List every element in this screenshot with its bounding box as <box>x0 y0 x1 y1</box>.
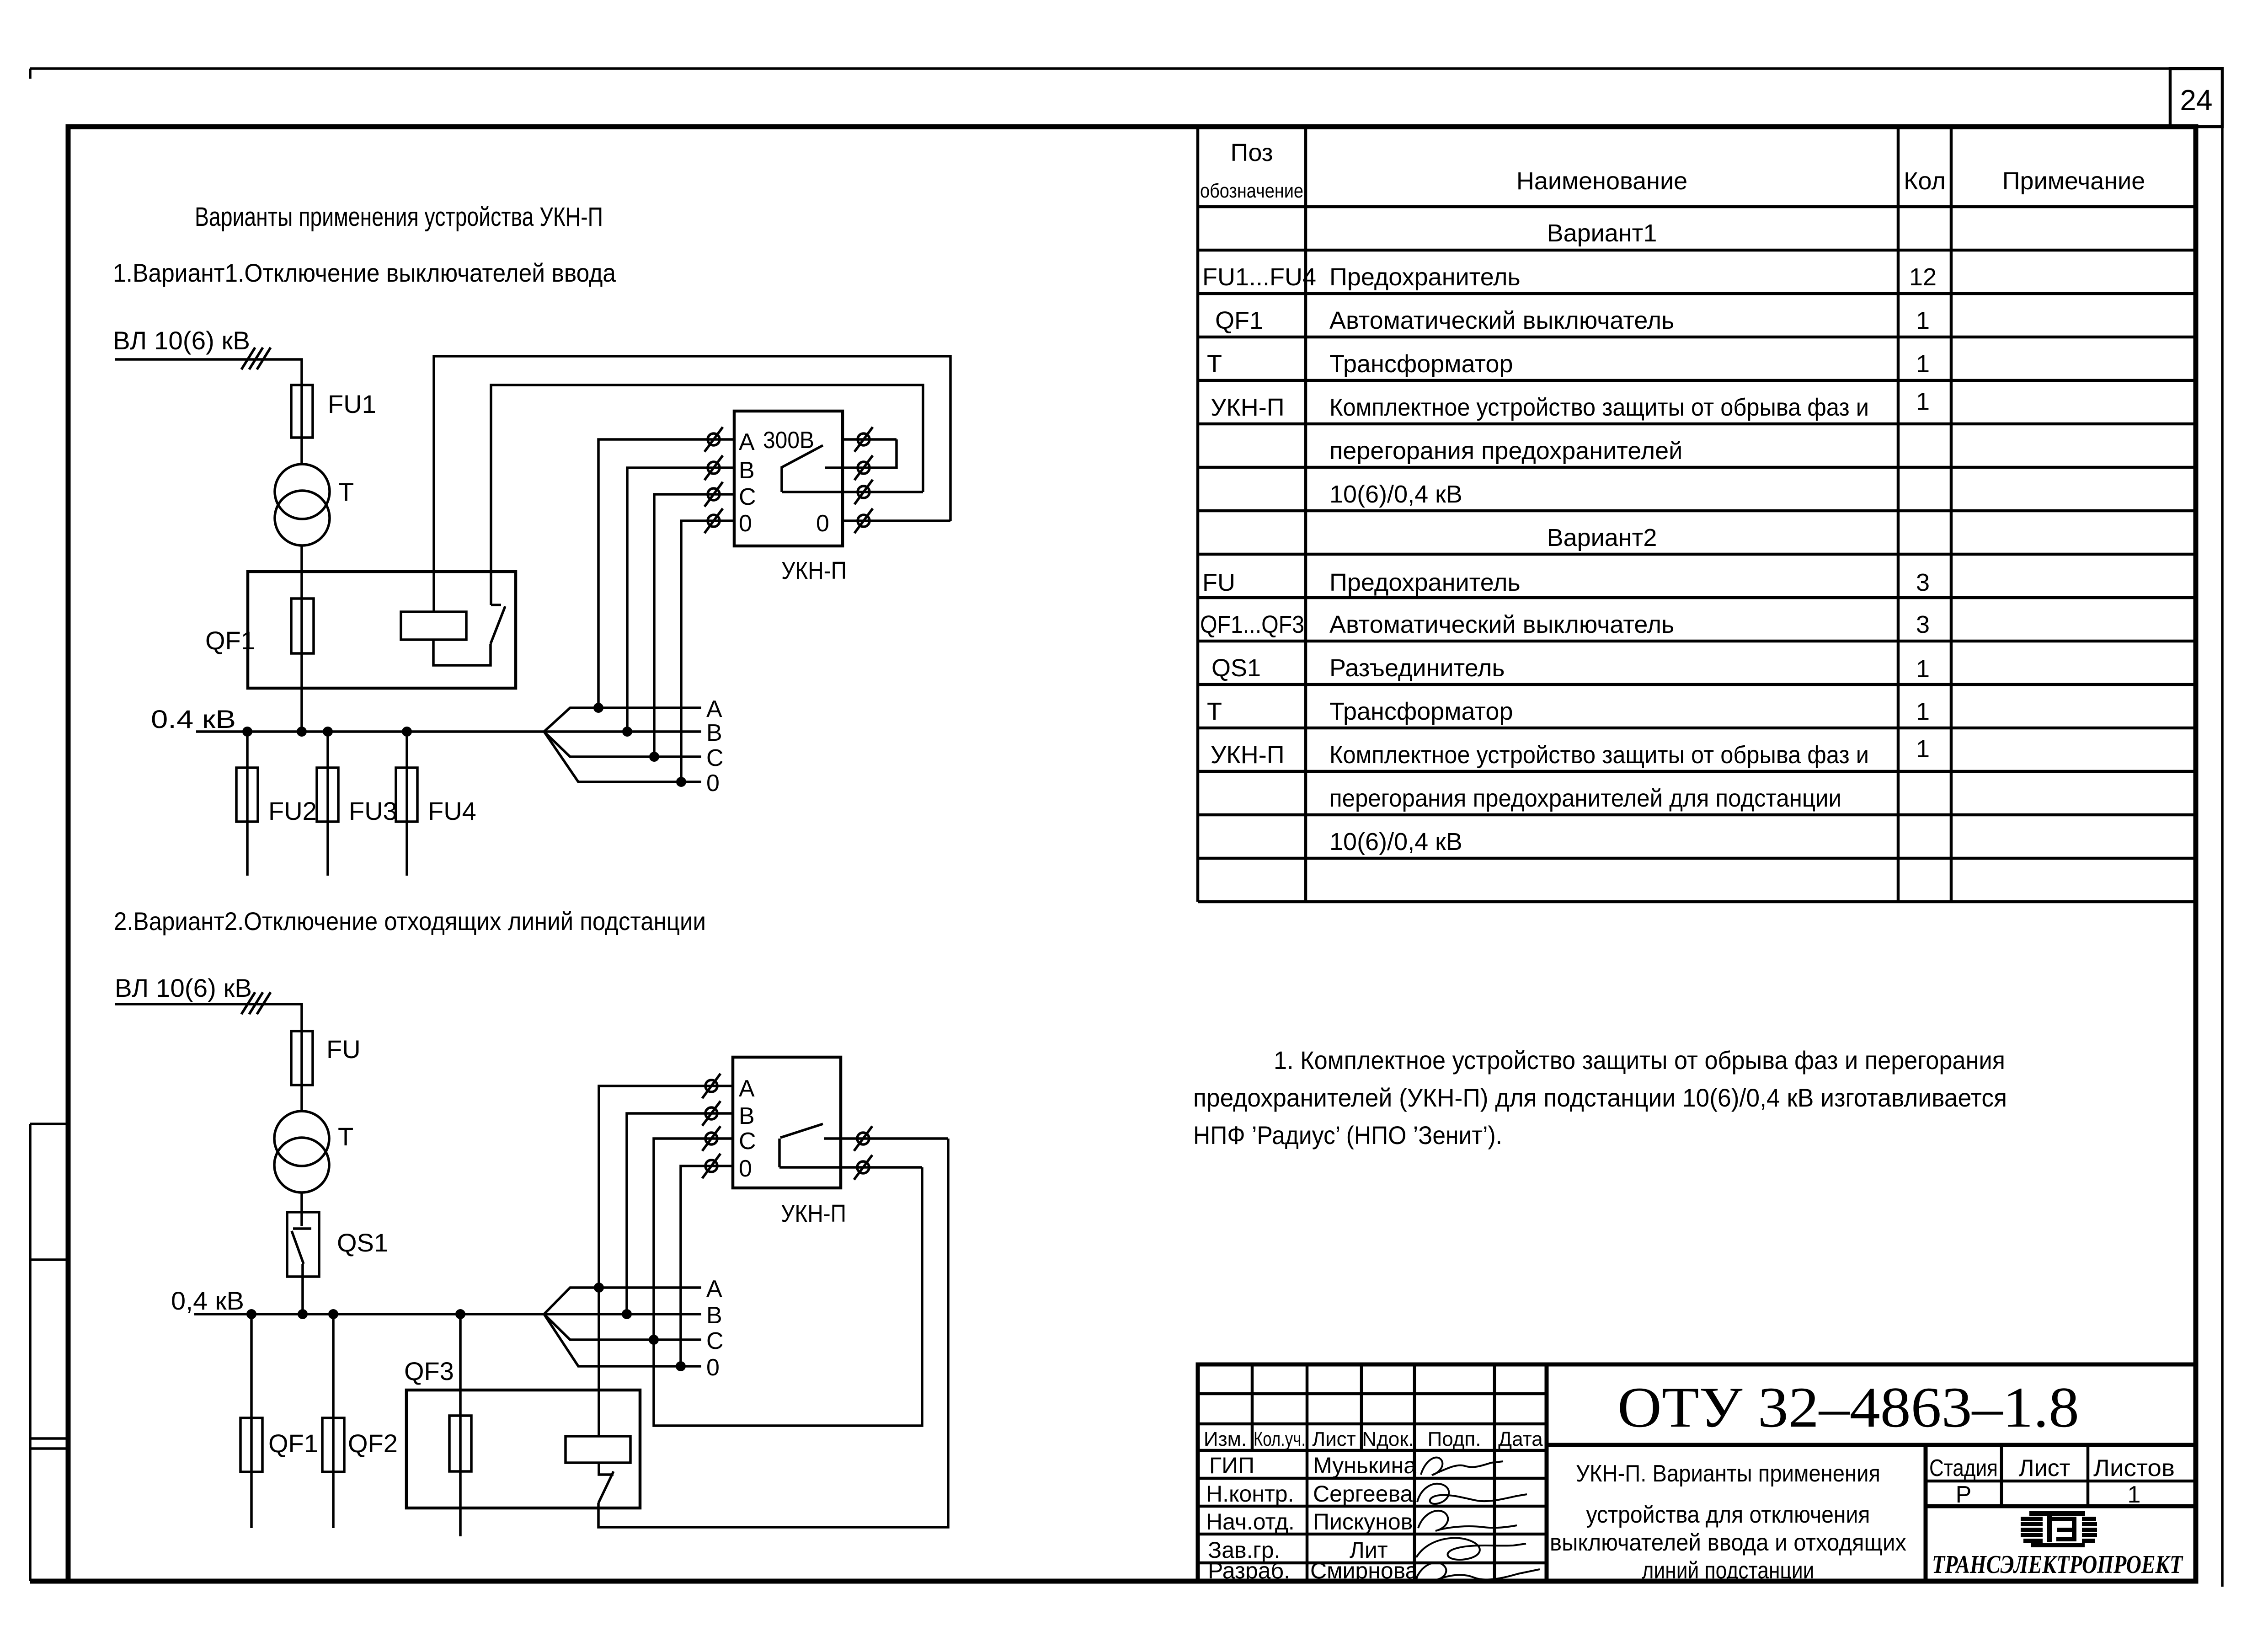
svg-text:Примечание: Примечание <box>2002 167 2145 195</box>
logo TEP emblem <box>2021 1511 2097 1547</box>
margin strip tick 1 <box>30 1123 68 1125</box>
terminal 0-in U2 <box>702 1154 720 1178</box>
svg-text:0: 0 <box>706 1354 720 1381</box>
svg-text:0: 0 <box>706 770 720 797</box>
bus fan-out B (variant 1) <box>544 730 701 733</box>
margin strip tick 3 <box>30 1437 68 1440</box>
node QF3 tap <box>455 1309 465 1319</box>
svg-text:Вариант1: Вариант1 <box>1547 219 1657 247</box>
wire U1 contact to C output <box>782 491 923 493</box>
transformer T (variant 2) <box>274 1111 329 1166</box>
svg-text:Дата: Дата <box>1498 1428 1543 1450</box>
svg-text:Листов: Листов <box>2093 1455 2175 1481</box>
svg-text:Вариант2: Вариант2 <box>1547 524 1657 551</box>
breaker element QF3 <box>449 1416 471 1471</box>
node QF1 tap (variant 2) <box>246 1309 256 1319</box>
svg-text:УКН-П: УКН-П <box>1211 741 1285 769</box>
bus fan-out 0 (variant 2) <box>544 1314 701 1366</box>
svg-text:T: T <box>338 1122 353 1151</box>
svg-text:ТРАНСЭЛЕКТРОПРОЕКТ: ТРАНСЭЛЕКТРОПРОЕКТ <box>1932 1551 2183 1579</box>
svg-text:Н.контр.: Н.контр. <box>1206 1481 1294 1507</box>
wire FU2 drop <box>246 732 249 876</box>
svg-text:устройства для отключения: устройства для отключения <box>1586 1502 1870 1528</box>
contact of UKN-P U2 <box>779 1124 841 1167</box>
top rule <box>30 67 2170 70</box>
svg-text:Пискунов: Пискунов <box>1313 1509 1413 1535</box>
title block line under ОТУ <box>1547 1443 2196 1447</box>
wire QF2 drop <box>332 1314 335 1528</box>
svg-text:FU1: FU1 <box>328 390 376 418</box>
svg-text:перегорания предохранителей дл: перегорания предохранителей для подстанц… <box>1329 785 1841 812</box>
node FU3 tap <box>323 727 333 737</box>
svg-text:УКН-П. Варианты применения: УКН-П. Варианты применения <box>1576 1460 1880 1487</box>
terminal C-out U2 <box>854 1126 872 1151</box>
node FU2 tap <box>242 727 252 737</box>
line break marks (variant 2) <box>241 992 271 1014</box>
terminal A-out U1 <box>854 427 873 452</box>
terminal 0-out U1 <box>854 508 873 533</box>
svg-text:Разраб.: Разраб. <box>1208 1558 1290 1583</box>
svg-text:обозначение: обозначение <box>1200 180 1303 202</box>
terminal A-in U2 <box>702 1074 720 1098</box>
svg-text:QF3: QF3 <box>404 1357 454 1385</box>
terminal C-in U1 <box>704 482 723 507</box>
svg-text:B: B <box>739 1103 755 1129</box>
wire: incoming line V2 <box>115 1004 302 1031</box>
wire QF3 feeder <box>459 1314 462 1536</box>
line break marks (variant 1) <box>241 348 271 369</box>
svg-text:QS1: QS1 <box>337 1228 388 1257</box>
svg-text:Автоматический выключатель: Автоматический выключатель <box>1329 307 1674 334</box>
node FU4 tap <box>402 727 412 737</box>
margin strip tick 2 <box>30 1258 68 1261</box>
svg-text:FU2: FU2 <box>268 797 317 825</box>
wire FU4 drop <box>406 732 408 876</box>
node riser C (variant 1) <box>649 752 659 762</box>
contact of UKN-P U1 <box>782 445 843 492</box>
right sheet line <box>2221 69 2224 1587</box>
fuse FU2 <box>236 768 258 822</box>
bus 0,4 kV (variant 2) <box>194 1313 544 1315</box>
title block line under stadia values <box>1926 1504 2196 1508</box>
signature 3 <box>1418 1511 1517 1531</box>
terminal 0-in U1 <box>704 508 723 533</box>
trip coil in QF3 <box>566 1436 630 1463</box>
svg-text:1: 1 <box>1916 655 1930 683</box>
bus fan-out C (variant 1) <box>544 732 701 757</box>
wire: transformer to QS1 <box>300 1192 303 1212</box>
QS1 contact <box>292 1212 311 1264</box>
frame bottom extension <box>30 1579 68 1584</box>
svg-text:C: C <box>739 1128 756 1155</box>
svg-text:2.Вариант2.Отключение отходящи: 2.Вариант2.Отключение отходящих линий по… <box>114 907 706 936</box>
svg-text:Поз: Поз <box>1231 139 1273 166</box>
wire U1 fixed contact to B output terminal <box>843 466 870 469</box>
device UKN-P U2 <box>733 1057 841 1188</box>
trip coil in QF1 <box>401 612 466 640</box>
svg-text:1: 1 <box>1916 307 1930 334</box>
wire U2 pivot to 0 output <box>779 1166 922 1169</box>
node riser B (variant 2) <box>622 1309 632 1319</box>
wire riser 0 to UKN-P input <box>681 521 734 782</box>
svg-text:A: A <box>706 1276 722 1302</box>
svg-text:1: 1 <box>1916 350 1930 378</box>
wire U1 0 row to wire A riser <box>843 519 950 522</box>
breaker QF2 <box>322 1418 344 1472</box>
transformer T (variant 1) <box>275 464 330 519</box>
terminal B-out U1 <box>854 455 873 480</box>
fuse FU1 <box>291 385 313 438</box>
svg-text:выключателей ввода и отходящих: выключателей ввода и отходящих <box>1550 1529 1906 1556</box>
svg-text:24: 24 <box>2180 84 2212 117</box>
signature 4 <box>1416 1538 1526 1560</box>
svg-text:1: 1 <box>2128 1481 2141 1508</box>
wire riser C to UKN-P input <box>654 494 734 757</box>
wire: QS1 to bus <box>301 1264 304 1314</box>
wire riser A to UKN-P input <box>598 439 734 708</box>
disconnector QS1 <box>287 1212 319 1277</box>
title block left grid <box>1198 1364 1547 1581</box>
svg-text:ГИП: ГИП <box>1209 1453 1254 1478</box>
svg-text:Лист: Лист <box>1312 1428 1356 1450</box>
svg-text:C: C <box>739 484 756 510</box>
wire loop A-out to B-out (U1) <box>870 439 897 468</box>
wire FU3 drop <box>326 732 329 876</box>
svg-text:Сергеева: Сергеева <box>1313 1481 1413 1507</box>
svg-text:1. Комплектное устройство защи: 1. Комплектное устройство защиты от обры… <box>1274 1046 2005 1075</box>
svg-text:C: C <box>706 1328 724 1354</box>
svg-text:T: T <box>338 477 354 506</box>
QF1 auxiliary contact <box>433 605 505 665</box>
signature 2 <box>1417 1484 1527 1504</box>
svg-text:НПФ ’Радиус’ (НПО ’Зенит’).: НПФ ’Радиус’ (НПО ’Зенит’). <box>1193 1121 1502 1150</box>
svg-text:перегорания предохранителей: перегорания предохранителей <box>1329 437 1682 465</box>
bus fan-out B (variant 2) <box>544 1313 701 1315</box>
svg-text:B: B <box>706 720 722 746</box>
QF3 auxiliary contact <box>598 1463 614 1503</box>
top rule left tick <box>29 69 32 79</box>
bus fan-out A (variant 1) <box>544 708 701 732</box>
bus fan-out C (variant 2) <box>544 1314 701 1340</box>
svg-text:Смирнова: Смирнова <box>1310 1558 1418 1583</box>
node riser 0 (variant 2) <box>676 1361 686 1371</box>
svg-text:QF1: QF1 <box>205 626 255 655</box>
circuit breaker box QF3 <box>406 1390 640 1508</box>
terminal B-in U1 <box>704 455 723 480</box>
svg-text:A: A <box>739 429 755 455</box>
left margin strip line <box>29 1124 32 1581</box>
title block outline <box>1198 1364 2196 1581</box>
svg-text:Мунькина: Мунькина <box>1313 1453 1416 1478</box>
svg-text:1.Вариант1.Отключение выключат: 1.Вариант1.Отключение выключателей ввода <box>113 258 616 287</box>
svg-text:QF1...QF3: QF1...QF3 <box>1200 611 1304 638</box>
svg-text:300В: 300В <box>763 427 814 454</box>
title block vertical main divider <box>1545 1364 1549 1581</box>
wire U2 fixed contact to C output <box>841 1137 948 1140</box>
wire QF1 drop (variant 2) <box>250 1314 253 1528</box>
svg-text:линий подстанции: линий подстанции <box>1642 1557 1814 1584</box>
node riser A (variant 2) <box>594 1283 604 1293</box>
terminal C-out U1 <box>854 480 873 504</box>
node QF2 tap <box>328 1309 338 1319</box>
svg-text:10(6)/0,4 кВ: 10(6)/0,4 кВ <box>1329 481 1462 508</box>
wire riser A to UKN-P input and trip coil <box>599 1086 733 1436</box>
svg-text:Лист: Лист <box>2019 1455 2071 1481</box>
node riser C (variant 2) <box>649 1335 659 1345</box>
svg-text:FU: FU <box>326 1035 361 1064</box>
node riser A (variant 1) <box>593 703 603 713</box>
svg-text:0: 0 <box>739 1155 752 1182</box>
spec table grid <box>1198 127 2196 902</box>
svg-text:1: 1 <box>1916 735 1930 763</box>
title block stadia divider <box>1924 1445 1928 1581</box>
node QS1-bus <box>298 1309 308 1319</box>
stadia column dividers <box>1926 1445 2196 1506</box>
svg-text:3: 3 <box>1916 611 1930 638</box>
svg-text:QS1: QS1 <box>1211 654 1261 682</box>
svg-text:ОТУ 32–4863–1.8: ОТУ 32–4863–1.8 <box>1617 1376 2079 1439</box>
svg-text:Комплектное устройство защиты: Комплектное устройство защиты от обрыва … <box>1329 741 1869 769</box>
terminal 0-out U2 <box>854 1155 872 1180</box>
svg-text:A: A <box>739 1075 755 1102</box>
fuse FU3 <box>317 768 338 822</box>
svg-text:Изм.: Изм. <box>1204 1428 1247 1450</box>
svg-text:Трансформатор: Трансформатор <box>1329 350 1513 378</box>
node riser 0 (variant 1) <box>676 777 686 787</box>
svg-text:УКН-П: УКН-П <box>781 557 847 584</box>
wire C-out down-loop to QF3 contact <box>598 1139 948 1527</box>
svg-text:1: 1 <box>1916 388 1930 415</box>
page number box <box>2170 69 2222 127</box>
svg-text:C: C <box>706 745 724 771</box>
svg-text:ВЛ 10(6) кВ: ВЛ 10(6) кВ <box>113 326 250 355</box>
wire B: contact riser and top link to UKN-P output C <box>491 385 923 605</box>
svg-text:B: B <box>706 1302 722 1329</box>
svg-text:Варианты применения устройства: Варианты применения устройства УКН-П <box>195 202 603 232</box>
svg-text:10(6)/0,4 кВ: 10(6)/0,4 кВ <box>1329 828 1462 856</box>
svg-text:QF2: QF2 <box>348 1429 398 1458</box>
svg-text:ВЛ 10(6) кВ: ВЛ 10(6) кВ <box>115 973 252 1002</box>
wire riser B to UKN-P input <box>627 1113 733 1314</box>
wire: transformer to bus through QF1 <box>300 545 303 732</box>
wire U1 edge to A output terminal <box>843 438 897 441</box>
fuse FU <box>291 1031 313 1085</box>
svg-text:Разъединитель: Разъединитель <box>1329 654 1505 682</box>
svg-text:3: 3 <box>1916 569 1930 596</box>
bus fan-out A (variant 2) <box>544 1288 701 1314</box>
svg-text:Автоматический выключатель: Автоматический выключатель <box>1329 611 1674 638</box>
svg-text:1: 1 <box>1916 698 1930 725</box>
wire riser 0 to UKN-P input <box>681 1166 733 1366</box>
svg-text:FU3: FU3 <box>349 797 397 825</box>
terminal B-in U2 <box>702 1101 720 1126</box>
svg-text:QF1: QF1 <box>268 1429 318 1458</box>
wire: FU1 to transformer <box>300 385 303 464</box>
svg-text:FU1...FU4: FU1...FU4 <box>1202 263 1316 291</box>
bus 0.4 kV (variant 1) <box>196 730 544 733</box>
svg-text:Стадия: Стадия <box>1929 1455 1998 1481</box>
svg-text:12: 12 <box>1909 263 1937 291</box>
fuse FU4 <box>396 768 417 822</box>
svg-text:A: A <box>706 696 722 722</box>
device UKN-P U1 <box>734 411 843 546</box>
svg-text:Трансформатор: Трансформатор <box>1329 698 1513 725</box>
wire riser C to UKN-P input and 0-output loop <box>654 1139 922 1426</box>
svg-text:Предохранитель: Предохранитель <box>1329 569 1521 596</box>
signature 5 <box>1416 1562 1540 1580</box>
svg-text:УКН-П: УКН-П <box>1211 394 1285 421</box>
node riser B (variant 1) <box>622 727 632 737</box>
svg-text:Нач.отд.: Нач.отд. <box>1206 1509 1295 1535</box>
svg-text:FU: FU <box>1202 569 1235 596</box>
svg-text:0.4 кВ: 0.4 кВ <box>151 705 236 733</box>
svg-text:УКН-П: УКН-П <box>781 1200 846 1227</box>
svg-text:Р: Р <box>1956 1481 1972 1508</box>
svg-text:Предохранитель: Предохранитель <box>1329 263 1521 291</box>
margin strip tick 4 <box>30 1447 68 1450</box>
breaker element QF1 <box>291 599 314 653</box>
terminal A-in U1 <box>704 427 723 452</box>
svg-text:B: B <box>739 457 755 484</box>
svg-text:0: 0 <box>816 510 829 537</box>
node QF1-bus <box>297 727 307 737</box>
svg-text:Наименование: Наименование <box>1516 167 1687 195</box>
svg-text:0,4 кВ: 0,4 кВ <box>171 1286 244 1315</box>
svg-text:T: T <box>1207 350 1222 378</box>
svg-text:Nдок.: Nдок. <box>1362 1428 1414 1450</box>
svg-text:Подп.: Подп. <box>1428 1428 1481 1450</box>
svg-text:предохранителей (УКН-П) для по: предохранителей (УКН-П) для подстанции 1… <box>1193 1083 2007 1112</box>
svg-text:Кол.уч.: Кол.уч. <box>1254 1428 1306 1450</box>
svg-text:0: 0 <box>739 510 752 537</box>
breaker QF1 (variant 2) <box>240 1418 262 1472</box>
svg-text:Кол: Кол <box>1904 167 1946 195</box>
circuit breaker box QF1 <box>248 572 516 688</box>
wire: incoming line V1 <box>115 359 302 385</box>
svg-text:QF1: QF1 <box>1215 307 1263 334</box>
wire A: coil riser and top link to UKN-P output 0 <box>434 356 950 612</box>
terminal C-in U2 <box>702 1126 720 1151</box>
svg-text:FU4: FU4 <box>428 797 476 825</box>
svg-text:T: T <box>1207 698 1222 725</box>
wire riser B to UKN-P input <box>627 468 734 732</box>
svg-text:Комплектное устройство защиты: Комплектное устройство защиты от обрыва … <box>1329 394 1869 421</box>
bus fan-out 0 (variant 1) <box>544 732 701 782</box>
signature 1 <box>1421 1457 1503 1475</box>
wire: FU to transformer (variant 2) <box>300 1031 303 1111</box>
